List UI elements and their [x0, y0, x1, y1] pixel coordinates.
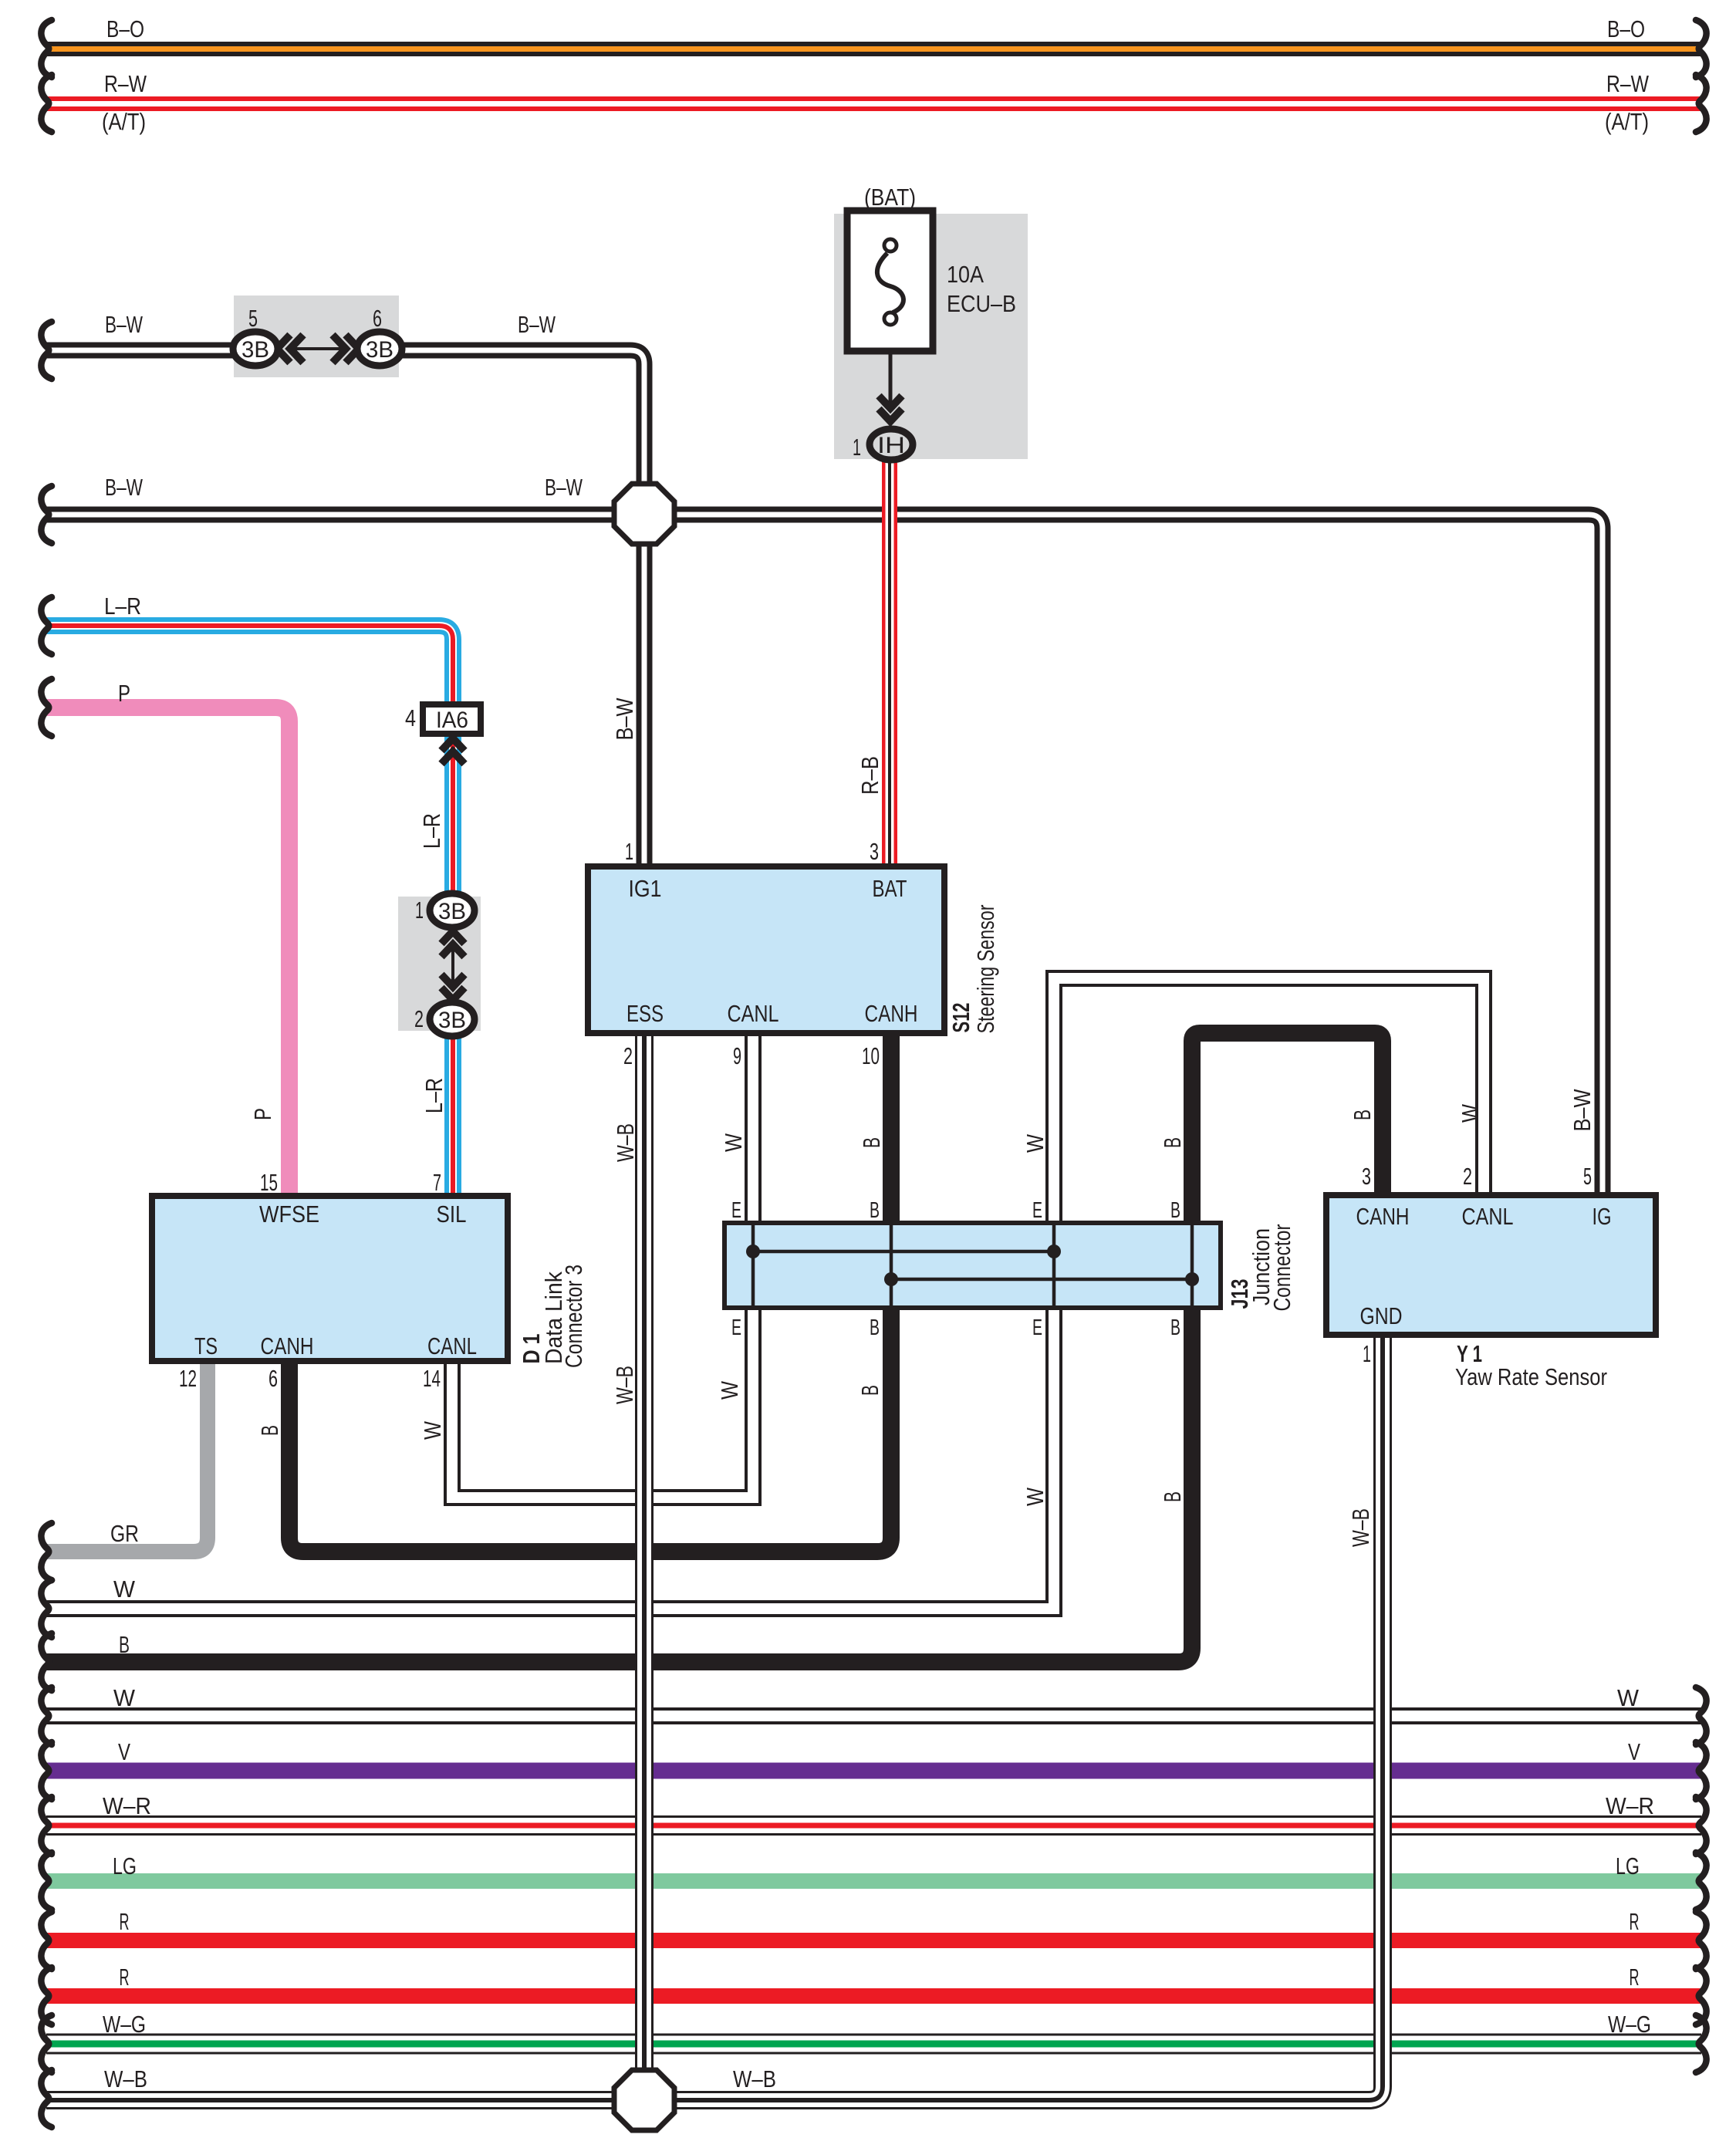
wire B-W from 3B pin 6 to S12 IG1 pin 1 [380, 350, 644, 866]
connector shield box for 3B pair (vertical) [398, 897, 481, 1031]
wire R row (upper, full width) [46, 1933, 1701, 1948]
svg-text:Connector 3: Connector 3 [560, 1265, 587, 1368]
svg-text:L–R: L–R [418, 813, 445, 849]
svg-text:Connector: Connector [1268, 1224, 1295, 1312]
svg-text:E: E [1032, 1198, 1042, 1223]
page brace left B row [41, 1633, 52, 1690]
svg-text:(A/T): (A/T) [102, 108, 146, 135]
svg-text:W–G: W–G [1608, 2011, 1651, 2038]
fuse element [877, 239, 903, 325]
arrow into IH connector [879, 396, 902, 421]
page brace right R-W [1696, 75, 1707, 132]
svg-text:2: 2 [1463, 1163, 1472, 1190]
svg-text:3B: 3B [438, 1008, 466, 1033]
svg-text:R: R [1630, 1908, 1640, 1935]
wire B-W from cowl junction to Y1 IG pin 5 [46, 515, 1603, 1195]
svg-text:R–W: R–W [104, 70, 147, 97]
svg-text:2: 2 [623, 1042, 633, 1069]
page brace left W-R [41, 1797, 52, 1854]
svg-text:W: W [716, 1380, 743, 1400]
junction octagon (W-B ground) [614, 2070, 674, 2130]
page brace right W-G [1696, 2015, 1707, 2072]
svg-text:W–B: W–B [612, 1123, 639, 1162]
wire W from J13 to Y1 CANL pin 2 [1054, 978, 1484, 1223]
steering sensor S12 box [588, 866, 944, 1033]
svg-text:B–W: B–W [611, 697, 638, 741]
svg-text:CANH: CANH [865, 1000, 918, 1027]
svg-text:B: B [119, 1631, 130, 1658]
svg-text:ECU–B: ECU–B [947, 290, 1016, 317]
svg-text:3B: 3B [438, 899, 466, 924]
wire W-G row (full width) [46, 2034, 1701, 2055]
wire B from J13 to D1 CANH pin 6 [289, 1308, 891, 1552]
svg-text:B–O: B–O [1607, 15, 1645, 42]
svg-text:B–O: B–O [106, 15, 144, 42]
svg-text:W: W [1457, 1103, 1484, 1123]
svg-text:IA6: IA6 [436, 708, 468, 733]
page brace left L-R [41, 597, 52, 654]
page brace right B-O [1696, 20, 1707, 77]
svg-text:LG: LG [1616, 1852, 1640, 1879]
svg-text:2: 2 [414, 1005, 424, 1032]
wire W from S12 CANL pin 9 to J13 [745, 1033, 762, 1223]
svg-text:B–W: B–W [1569, 1089, 1596, 1132]
page brace left LG [41, 1852, 52, 1910]
connector IA6 pin 4 [423, 704, 481, 734]
svg-text:IG1: IG1 [629, 875, 662, 902]
svg-text:1: 1 [1363, 1340, 1371, 1367]
wire B from J13 to Y1 CANH pin 3 [1192, 1033, 1383, 1223]
arrow into IA6 [441, 738, 464, 764]
svg-text:LG: LG [113, 1852, 137, 1879]
svg-text:B: B [1349, 1109, 1376, 1120]
svg-text:W: W [113, 1684, 136, 1711]
svg-text:15: 15 [260, 1169, 278, 1196]
svg-text:B: B [870, 1315, 880, 1340]
wire W from J13 to D1 CANL pin 14 [452, 1308, 753, 1498]
connector 3B pin 6 [357, 332, 402, 366]
svg-text:3B: 3B [366, 337, 393, 363]
connector 3B pin 1 [430, 893, 475, 927]
mating line between vertical 3B ovals [451, 947, 454, 984]
page brace left B-W upper [41, 322, 52, 379]
svg-text:W–R: W–R [103, 1792, 151, 1819]
svg-text:3: 3 [870, 838, 879, 865]
svg-text:W–B: W–B [104, 2065, 147, 2092]
page brace left V [41, 1742, 52, 1799]
page brace right R upper [1696, 1912, 1707, 1969]
page brace right W-R [1696, 1797, 1707, 1854]
svg-text:ESS: ESS [627, 1000, 664, 1027]
data link connector 3 D1 box [152, 1196, 508, 1361]
svg-text:R: R [120, 1964, 130, 1991]
connector IH pin 1 [870, 429, 913, 460]
svg-text:V: V [1628, 1738, 1640, 1765]
svg-text:GR: GR [110, 1520, 139, 1547]
fuse 10A ECU-B body [847, 211, 933, 351]
svg-text:B–W: B–W [518, 311, 556, 338]
svg-text:3: 3 [1362, 1163, 1371, 1190]
svg-text:BAT: BAT [873, 875, 907, 902]
svg-text:5: 5 [1583, 1163, 1592, 1190]
svg-text:CANH: CANH [261, 1332, 314, 1359]
svg-text:W: W [419, 1420, 446, 1440]
svg-text:W: W [113, 1576, 136, 1603]
wire B from J13 to page edge [46, 1308, 1192, 1662]
svg-text:B: B [856, 1385, 883, 1396]
wire W-R row (full width) [46, 1815, 1701, 1836]
svg-text:10A: 10A [947, 261, 984, 288]
svg-text:R–W: R–W [1606, 70, 1650, 97]
page brace left R lower [41, 1967, 52, 2025]
wire GR from page edge to D1 TS pin 12 [46, 1361, 208, 1552]
connector 3B pin 2 [430, 1002, 475, 1036]
svg-text:B: B [1170, 1198, 1180, 1223]
page brace left W-B [41, 2070, 52, 2127]
svg-text:W–B: W–B [611, 1366, 638, 1404]
page brace right W row2 [1696, 1687, 1707, 1744]
svg-text:R–B: R–B [856, 756, 883, 795]
page brace left R-W [41, 75, 52, 132]
svg-text:L–R: L–R [420, 1078, 448, 1113]
svg-text:W–G: W–G [103, 2011, 146, 2038]
page brace left GR [41, 1523, 52, 1580]
svg-text:B–W: B–W [105, 311, 144, 338]
svg-text:3B: 3B [241, 337, 269, 363]
svg-text:Yaw Rate Sensor: Yaw Rate Sensor [1455, 1363, 1607, 1390]
svg-text:10: 10 [862, 1042, 880, 1069]
svg-text:IH: IH [877, 433, 905, 458]
svg-text:1: 1 [415, 897, 424, 924]
svg-text:4: 4 [405, 704, 416, 731]
wire L-R from page edge to IA6 connector [46, 626, 453, 707]
wire L-R from IA6 to 3B connector [444, 731, 461, 899]
svg-text:1: 1 [625, 838, 633, 865]
svg-text:TS: TS [194, 1332, 218, 1359]
svg-text:B: B [1170, 1315, 1180, 1340]
svg-text:E: E [731, 1198, 741, 1223]
svg-text:CANL: CANL [427, 1332, 477, 1359]
svg-text:1: 1 [853, 434, 861, 461]
page brace left P [41, 679, 52, 736]
svg-text:P: P [249, 1108, 276, 1120]
junction octagon (B-W) [614, 484, 674, 544]
svg-text:GND: GND [1360, 1302, 1403, 1329]
svg-text:CANL: CANL [1462, 1203, 1514, 1230]
page brace right V [1696, 1742, 1707, 1799]
svg-text:B: B [256, 1425, 283, 1436]
svg-text:(BAT): (BAT) [864, 184, 916, 211]
svg-text:SIL: SIL [437, 1201, 467, 1228]
page brace right R lower [1696, 1967, 1707, 2025]
page brace left W row2 [41, 1687, 52, 1744]
yaw rate sensor Y1 box [1326, 1195, 1656, 1335]
svg-text:B–W: B–W [105, 474, 144, 501]
junction connector J13 box [724, 1223, 1221, 1308]
wire W row (full width) [46, 1707, 1701, 1724]
svg-text:L–R: L–R [104, 593, 141, 620]
svg-text:5: 5 [248, 305, 258, 332]
fuse output lead [889, 347, 893, 404]
arrow to 3B pin 2 [441, 974, 464, 1000]
wire L-R from 3B connector to D1 SIL pin 7 [444, 1032, 461, 1196]
page brace left R upper [41, 1912, 52, 1969]
svg-text:S12: S12 [947, 1003, 974, 1033]
wire B from S12 CANH pin 10 to J13 [883, 1033, 900, 1223]
wire R-W (red-white) A/T [46, 96, 1701, 111]
svg-text:B: B [1159, 1491, 1186, 1502]
svg-text:W: W [1022, 1487, 1049, 1506]
arrow to 3B pin 1 [441, 931, 464, 957]
page brace right LG [1696, 1852, 1707, 1910]
wire W-B from Y1 GND pin 1 to page edge [46, 1335, 1383, 2100]
page brace left W row1 [41, 1580, 52, 1637]
svg-text:(A/T): (A/T) [1605, 108, 1649, 135]
J13 node W-E junction dot [1047, 1245, 1061, 1258]
wire R row (lower, full width) [46, 1988, 1701, 2004]
wire R-B from fuse IH to S12 BAT pin 3 [882, 457, 897, 866]
svg-text:B: B [1159, 1137, 1186, 1148]
page brace left W-G [41, 2015, 52, 2072]
svg-text:6: 6 [269, 1365, 278, 1392]
svg-text:14: 14 [423, 1365, 441, 1392]
svg-text:B: B [858, 1137, 885, 1148]
svg-text:E: E [731, 1315, 741, 1340]
page brace left B-W lower [41, 486, 52, 543]
wire V row (full width) [46, 1763, 1701, 1779]
J13 internal bus lines [753, 1225, 1192, 1305]
J13 node B junction dot [1185, 1272, 1199, 1286]
svg-text:P: P [118, 680, 130, 707]
svg-text:W: W [1022, 1133, 1049, 1153]
svg-text:W: W [1617, 1684, 1640, 1711]
wire LG row (full width) [46, 1873, 1701, 1889]
connector 3B pin 5 [233, 332, 278, 366]
svg-text:6: 6 [373, 305, 382, 332]
svg-text:9: 9 [733, 1042, 741, 1069]
svg-text:R: R [120, 1908, 130, 1935]
fuse shield box ECU-B [834, 214, 1028, 459]
J13 node B junction dot [884, 1272, 898, 1286]
svg-text:Steering Sensor: Steering Sensor [972, 905, 999, 1034]
svg-text:W–R: W–R [1606, 1792, 1654, 1819]
wire B-W from page edge to 3B pin 5 [46, 343, 255, 359]
svg-text:CANL: CANL [728, 1000, 779, 1027]
svg-text:12: 12 [179, 1365, 197, 1392]
svg-text:E: E [1032, 1315, 1042, 1340]
svg-text:W: W [720, 1133, 747, 1152]
svg-text:WFSE: WFSE [259, 1201, 319, 1228]
wire W-B from S12 ESS pin 2 to ground junction [635, 1033, 654, 2100]
wire B-O (black-orange) top [46, 42, 1701, 56]
arrow to 3B pin 6 [333, 335, 359, 363]
svg-text:W–B: W–B [1347, 1508, 1374, 1547]
svg-text:R: R [1630, 1964, 1640, 1991]
svg-text:7: 7 [433, 1169, 441, 1196]
svg-text:B–W: B–W [545, 474, 583, 501]
wire W from J13 to page edge [46, 1308, 1054, 1609]
connector shield box for 3B pair (top) [234, 296, 399, 377]
svg-text:W–B: W–B [733, 2065, 776, 2092]
J13 node W-E junction dot [746, 1245, 760, 1258]
svg-text:IG: IG [1592, 1203, 1612, 1230]
svg-text:V: V [118, 1738, 130, 1765]
mating line between 3B ovals [293, 347, 343, 350]
wire P from page edge to D1 WFSE pin 15 [46, 708, 289, 1196]
arrow to 3B pin 5 [277, 335, 303, 363]
svg-text:CANH: CANH [1356, 1203, 1410, 1230]
page brace left B-O [41, 20, 52, 77]
svg-text:B: B [870, 1198, 880, 1223]
